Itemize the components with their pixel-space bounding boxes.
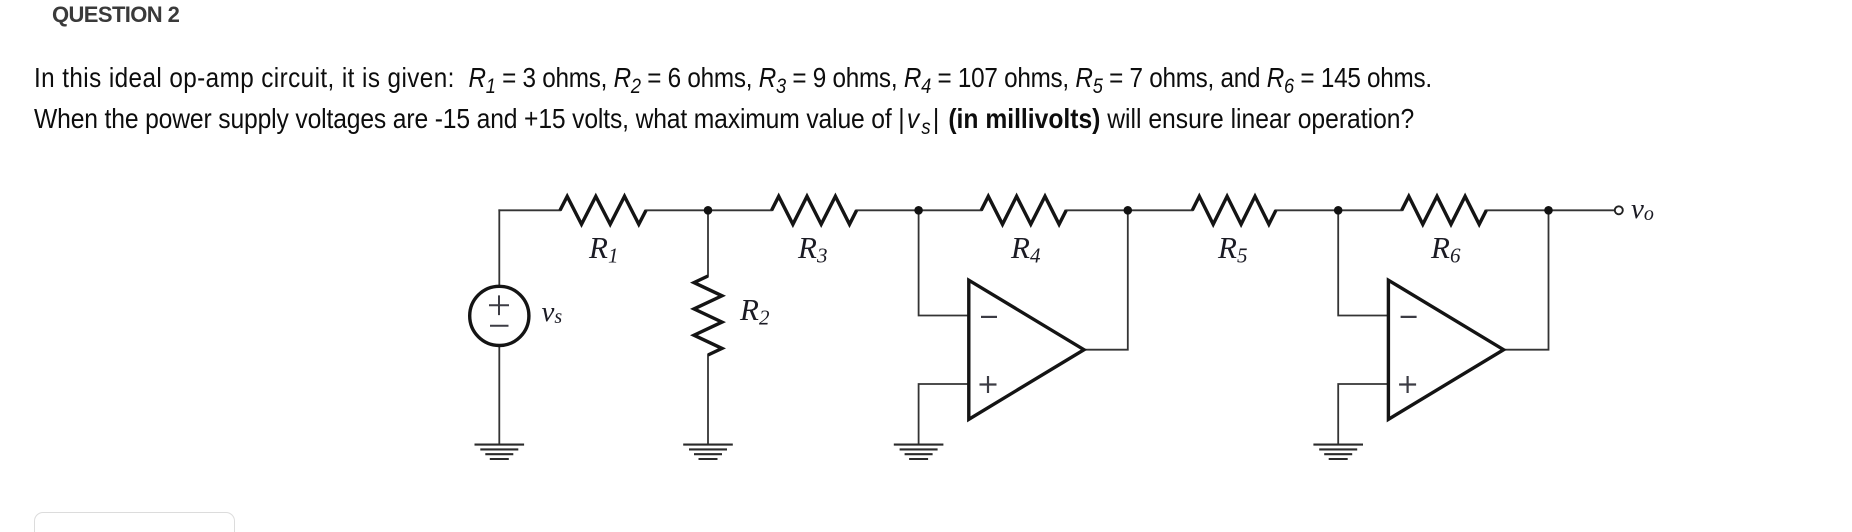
svg-text:R6: R6 xyxy=(1430,230,1461,268)
svg-text:R5: R5 xyxy=(1217,230,1247,268)
svg-text:R4: R4 xyxy=(1010,230,1041,268)
svg-text:R2: R2 xyxy=(739,292,770,330)
svg-text:vs: vs xyxy=(542,296,563,328)
svg-text:R1: R1 xyxy=(588,230,618,268)
svg-text:vo: vo xyxy=(1631,193,1654,225)
svg-text:R3: R3 xyxy=(797,230,827,268)
